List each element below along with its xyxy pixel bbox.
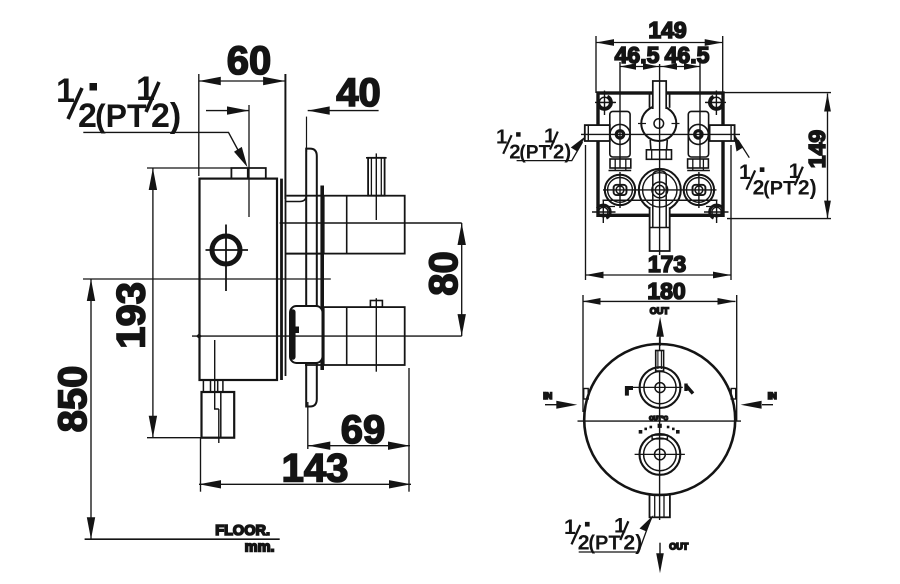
label half inch PT top view left (496, 125, 571, 163)
bottom knob (640, 434, 681, 475)
top pipe center line (280, 222, 462, 224)
label half inch PT left view (56, 70, 181, 135)
right check valve (688, 111, 708, 157)
svg-text:OUT: OUT (669, 542, 689, 552)
40 dim right extension (306, 117, 308, 152)
front center lines (578, 420, 742, 422)
dim 149 top (596, 36, 723, 93)
svg-text:OUT: OUT (650, 306, 670, 316)
right inlet pipe (plan) (710, 125, 735, 141)
dim 40 (206, 110, 379, 112)
bottom outlet pipe (front) (650, 495, 670, 518)
corner pad BR (710, 205, 723, 218)
dim 193 (147, 168, 202, 438)
svg-text:FLOOR.: FLOOR. (215, 523, 270, 539)
screw BR (704, 200, 729, 223)
mounting tab right (731, 389, 736, 400)
floor line (85, 538, 280, 540)
lever icon right (686, 384, 693, 394)
dim 180 (583, 295, 737, 421)
trim plate circle (584, 344, 735, 495)
body (200, 179, 278, 380)
svg-text:850: 850 (51, 366, 95, 433)
svg-text:46.5: 46.5 (665, 42, 710, 68)
corner pad BL (597, 205, 610, 218)
screw BL (592, 200, 616, 223)
dim 46.5 right arrows (661, 63, 700, 69)
left check valve (610, 111, 630, 157)
right nut (688, 159, 709, 168)
dim 80 (461, 223, 463, 336)
OUT arrow top (659, 335, 661, 346)
top knob stem (656, 351, 664, 372)
leader top view left (517, 142, 583, 161)
label half inch PT front view (564, 514, 642, 555)
leader top view right (738, 140, 749, 158)
cartridge center line (248, 105, 250, 217)
top knob (640, 367, 681, 408)
corner pad TR (709, 96, 722, 109)
bottom center circle (639, 169, 681, 211)
svg-text:173: 173 (648, 251, 686, 277)
svg-text:180: 180 (647, 278, 685, 304)
IN arrow right (762, 404, 773, 406)
center nut (646, 150, 671, 160)
dim 149 right (723, 93, 831, 219)
lower cover screw (294, 327, 300, 334)
svg-text:149: 149 (648, 17, 686, 43)
screw horizontal ticks (598, 103, 723, 207)
svg-text:60: 60 (227, 39, 272, 83)
dotted arc marks (639, 424, 680, 434)
lower cover dark face (290, 312, 296, 357)
left nut (610, 159, 631, 168)
tab top extension line to 193 dim (147, 167, 231, 169)
svg-text:IN: IN (543, 391, 552, 401)
svg-text:40: 40 (336, 71, 381, 115)
bottom left circle (605, 175, 635, 205)
svg-text:69: 69 (341, 408, 386, 452)
svg-text:OUT°C: OUT°C (649, 416, 669, 422)
bottom knob notch (652, 435, 667, 439)
sleeve bottom (286, 253, 324, 255)
leader line left label (83, 132, 245, 163)
svg-text:mm.: mm. (245, 540, 275, 556)
bottom outlet pipe (plan) (650, 208, 670, 251)
bottom right circle (684, 175, 714, 205)
body bottom ribs (202, 380, 234, 392)
sleeve left edge (285, 74, 287, 376)
sleeve top (286, 196, 307, 202)
drain center line (215, 340, 219, 443)
temp icon left (626, 386, 633, 396)
bottom pipe center line (192, 335, 462, 337)
body top tab (231, 168, 265, 179)
svg-text:143: 143 (282, 447, 349, 491)
screw symbol on body (212, 236, 240, 264)
corner pad TL (598, 96, 611, 109)
body right inner edge (280, 179, 283, 380)
wall plate front face band (320, 186, 324, 371)
dim 69 (308, 368, 410, 492)
svg-text:46.5: 46.5 (615, 42, 660, 68)
center stem (649, 140, 652, 150)
OUT arrow bottom (659, 543, 661, 558)
leader front view (579, 521, 650, 552)
dim 850 (83, 279, 331, 539)
small top outlet pipe (368, 158, 385, 196)
svg-text:IN: IN (768, 391, 777, 401)
dim 143 (199, 438, 411, 492)
wall plate body (306, 149, 317, 407)
valve box (598, 93, 723, 215)
screw TR (705, 91, 726, 116)
left inlet pipe (plan) (585, 125, 610, 141)
mounting tab left (584, 389, 589, 400)
dim 173 (586, 145, 732, 280)
inner base line (603, 199, 718, 201)
drain housing (202, 392, 235, 438)
bottom circles center line (603, 189, 717, 191)
center line junction tick (196, 334, 202, 339)
bottom pipe cap (370, 301, 382, 308)
plan center lines (659, 64, 661, 255)
IN arrow left (545, 404, 558, 406)
label half inch PT top view right (739, 160, 817, 200)
svg-text:193: 193 (110, 282, 154, 349)
screw TL (595, 91, 616, 116)
dim 46.5 left (620, 66, 700, 68)
top outlet pipe (plan) (653, 81, 666, 109)
svg-text:80: 80 (422, 251, 466, 296)
lower cover cap (290, 306, 323, 363)
dim 60 (199, 74, 285, 199)
cartridge circle top (641, 106, 676, 141)
top pipe assembly (324, 196, 405, 254)
svg-text:149: 149 (804, 130, 830, 168)
bottom pipe assembly (324, 307, 405, 365)
